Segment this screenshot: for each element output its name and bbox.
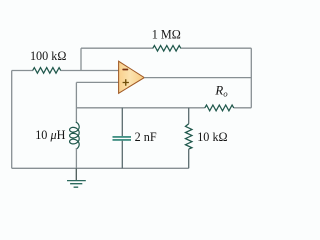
wire: top feedback horizontal (left segment to 1M resistor) [81, 47, 153, 49]
wire: top feedback horizontal (right segment from 1M resistor) [181, 47, 252, 49]
resistor R-feedback 1 MOhm zigzag [153, 46, 181, 52]
ground bars [67, 181, 86, 188]
svg-text:2 nF: 2 nF [135, 130, 157, 144]
op-amp plus sign [123, 79, 129, 85]
resistor R-load 10 kOhm zigzag [185, 124, 192, 149]
op-amp minus sign [122, 69, 128, 71]
wire: feedback left vertical [80, 48, 82, 70]
wire: noninverting input horizontal [76, 81, 119, 83]
wire: Ro right lead [234, 107, 252, 109]
inductor L1 10uH coil [70, 122, 80, 149]
wire: inverting input horizontal (left of 100k) [12, 70, 33, 72]
wire: tank vertical (plus input down to inductor) [75, 82, 77, 123]
wire: feedback right vertical [250, 48, 252, 108]
svg-text:10 μH: 10 μH [35, 128, 65, 142]
svg-text:Ro: Ro [214, 84, 228, 99]
svg-text:10 kΩ: 10 kΩ [197, 130, 227, 144]
wire: tank top horizontal (left of Ro) [76, 107, 204, 109]
resistor Ro zigzag [205, 105, 234, 111]
resistor R-load 10 kOhm bottom lead [188, 149, 190, 168]
wire: inverting input horizontal (100k to op-amp) [61, 70, 120, 72]
capacitor C1 top lead [121, 108, 123, 136]
op-amp U1 triangle [119, 61, 145, 93]
wire: left outer vertical [11, 71, 13, 169]
wire: bottom horizontal [12, 167, 189, 169]
svg-text:100 kΩ: 100 kΩ [30, 49, 66, 63]
capacitor C1 bottom lead [121, 141, 123, 169]
svg-text:1 MΩ: 1 MΩ [152, 28, 181, 42]
wire: inductor bottom lead [75, 148, 77, 168]
wire: op-amp output horizontal [144, 77, 251, 79]
resistor R-load 10 kOhm top lead [188, 108, 190, 124]
ground stem [75, 168, 77, 180]
capacitor C1 plates [113, 137, 132, 140]
resistor R-in 100 kOhm zigzag [33, 68, 61, 74]
